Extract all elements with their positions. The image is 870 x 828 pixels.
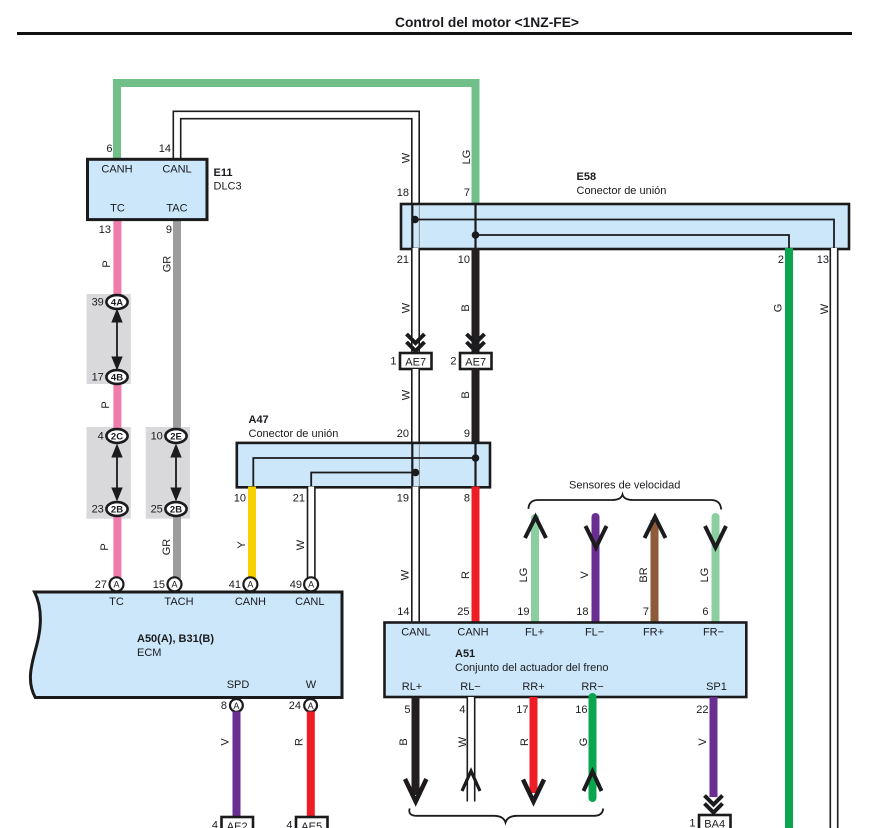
svg-text:4: 4 [286, 820, 292, 828]
wire W white E11 pin14 to E58 pin18 [177, 115, 416, 205]
svg-text:W: W [400, 569, 412, 580]
E58 internal wire to pin2 [476, 235, 789, 248]
svg-text:G: G [578, 738, 590, 747]
svg-text:TACH: TACH [164, 596, 193, 608]
svg-text:P: P [101, 260, 113, 267]
svg-text:8: 8 [464, 493, 470, 505]
svg-text:10: 10 [151, 431, 165, 443]
connector A51 box [385, 623, 747, 698]
svg-text:AE2: AE2 [227, 821, 248, 828]
wire R A51 RR+ [530, 697, 538, 793]
svg-text:SP1: SP1 [706, 681, 727, 693]
svg-text:B: B [398, 738, 410, 745]
wire GR gray E11 pin9 seg1 [173, 220, 181, 430]
svg-text:BR: BR [638, 567, 650, 582]
svg-text:Conector de unión: Conector de unión [577, 185, 667, 197]
svg-text:RL+: RL+ [402, 681, 423, 693]
svg-text:V: V [697, 738, 709, 746]
svg-text:2: 2 [450, 356, 456, 368]
svg-text:CANH: CANH [235, 596, 266, 608]
E58 internal wire pin18-21 [411, 205, 413, 248]
svg-text:25: 25 [151, 504, 165, 516]
connector AE7 no1 [400, 353, 432, 369]
wire B E58 pin10 down [472, 248, 480, 354]
svg-text:V: V [220, 738, 232, 746]
svg-text:RL−: RL− [460, 681, 481, 693]
arrow up FL+ [525, 517, 546, 538]
svg-text:1: 1 [689, 818, 695, 828]
svg-text:A: A [247, 580, 253, 590]
svg-text:BA4: BA4 [704, 819, 725, 828]
svg-text:14: 14 [159, 143, 171, 155]
arrow down RR+ [523, 780, 544, 802]
svg-text:E11: E11 [214, 167, 233, 179]
wire Y A47 pin10 to ECM CANH [248, 487, 256, 579]
svg-text:SPD: SPD [227, 679, 250, 691]
A47 junction node [472, 454, 480, 462]
A47 internal wire to pin21 [311, 473, 415, 487]
svg-text:R: R [519, 738, 531, 746]
svg-text:B: B [460, 391, 472, 398]
A47 junction node [412, 469, 420, 477]
svg-text:19: 19 [517, 606, 529, 618]
svg-text:A: A [171, 580, 177, 590]
ECM box A50(A) B31(B) [30, 592, 342, 698]
svg-text:8: 8 [221, 700, 227, 712]
svg-text:RR+: RR+ [522, 681, 544, 693]
arrow down FR- [705, 526, 726, 548]
arrow up RR- [584, 772, 602, 792]
wire LG green E11 pin6 to E58 pin7 [117, 83, 476, 205]
svg-text:16: 16 [575, 704, 587, 716]
svg-text:AE5: AE5 [301, 821, 322, 828]
svg-text:GR: GR [162, 256, 174, 273]
svg-text:1: 1 [390, 356, 396, 368]
svg-text:W: W [401, 302, 413, 313]
svg-text:23: 23 [92, 504, 106, 516]
chevrons into BA4 [705, 796, 723, 813]
connector AE5 [296, 817, 328, 828]
svg-text:Sensores de velocidad: Sensores de velocidad [569, 480, 680, 492]
svg-text:AE7: AE7 [465, 357, 486, 369]
svg-text:W: W [401, 152, 413, 163]
svg-text:A: A [308, 580, 314, 590]
svg-text:A: A [233, 701, 239, 711]
arrow up FR+ [645, 517, 666, 538]
svg-text:4: 4 [212, 820, 218, 828]
svg-text:R: R [294, 738, 306, 746]
svg-text:6: 6 [106, 143, 112, 155]
brace over speed sensors [528, 495, 721, 510]
wire R ECM W to AE5 [307, 712, 315, 818]
wire G E58 pin2 down right side [785, 248, 793, 828]
chevrons into AE7 no1 [407, 334, 425, 351]
wire P pink seg3 to ECM pin27 [113, 515, 121, 579]
svg-text:P: P [100, 401, 112, 408]
wire V ECM SPD to AE2 [233, 712, 241, 818]
svg-text:Y: Y [236, 541, 248, 549]
title rule [17, 32, 852, 35]
wire P pink seg2 between shield boxes [113, 384, 121, 430]
svg-text:LG: LG [461, 150, 473, 165]
svg-text:18: 18 [576, 606, 588, 618]
connector AE2 [222, 817, 254, 828]
oval connector 2C [106, 429, 127, 443]
connector AE7 no2 [460, 353, 492, 369]
svg-text:W: W [401, 389, 413, 400]
svg-text:Conjunto del actuador del fren: Conjunto del actuador del freno [455, 662, 609, 674]
svg-text:CANH: CANH [457, 627, 488, 639]
gray shield box 2C/2B [87, 427, 131, 519]
wire W A51 RL- [467, 697, 476, 802]
svg-text:RR−: RR− [581, 681, 603, 693]
ECM pin 15 circle A [168, 577, 182, 591]
svg-text:CANL: CANL [162, 164, 191, 176]
svg-text:A51: A51 [455, 648, 475, 660]
svg-text:2E: 2E [170, 432, 182, 443]
brace under RL RR wires [409, 809, 603, 823]
svg-text:TC: TC [110, 203, 125, 215]
svg-text:B: B [460, 304, 472, 311]
svg-text:2B: 2B [170, 505, 182, 516]
svg-text:Control del motor <1NZ-FE>: Control del motor <1NZ-FE> [395, 15, 579, 30]
svg-text:FR+: FR+ [643, 627, 664, 639]
svg-text:FL+: FL+ [525, 627, 544, 639]
svg-text:Conector de unión: Conector de unión [249, 428, 339, 440]
svg-text:18: 18 [397, 187, 409, 199]
svg-text:9: 9 [166, 224, 172, 236]
A47 internal wire to pin10 [253, 458, 475, 487]
svg-text:39: 39 [92, 297, 106, 309]
svg-text:24: 24 [289, 700, 301, 712]
svg-text:TAC: TAC [166, 203, 187, 215]
ECM pin 27 circle A [110, 577, 124, 591]
svg-text:7: 7 [464, 187, 470, 199]
svg-text:W: W [457, 736, 469, 747]
svg-text:20: 20 [397, 428, 409, 440]
gray shield box 2E/2B [146, 427, 190, 519]
oval connector 4B [106, 370, 127, 384]
svg-text:19: 19 [397, 493, 409, 505]
svg-text:10: 10 [458, 254, 470, 266]
wire B AE7 to A47 pin9 [472, 369, 480, 444]
svg-text:6: 6 [702, 606, 708, 618]
oval connector 2B right [165, 502, 186, 516]
wire G A51 RR- [589, 697, 597, 798]
wire R A47 pin8 to A51 pin25 [472, 487, 480, 624]
svg-text:15: 15 [153, 579, 165, 591]
svg-text:ECM: ECM [137, 647, 161, 659]
svg-text:A: A [113, 580, 119, 590]
svg-text:A47: A47 [249, 414, 269, 426]
svg-text:25: 25 [457, 606, 469, 618]
A47 internal wire pin9-8 [474, 444, 476, 487]
wire LG sensor FR- [712, 517, 720, 623]
svg-text:2B: 2B [111, 505, 123, 516]
svg-text:FL−: FL− [585, 627, 604, 639]
ECM pin 24 circle A [304, 699, 317, 712]
svg-text:4A: 4A [111, 298, 123, 309]
wire LG sensor FL+ [531, 518, 539, 623]
svg-text:4: 4 [98, 431, 106, 443]
svg-text:W: W [306, 679, 317, 691]
connector E58 box [401, 204, 849, 249]
svg-text:17: 17 [92, 372, 106, 384]
ECM pin 8 circle A [230, 699, 243, 712]
svg-text:CANL: CANL [295, 596, 324, 608]
connector A47 box [237, 443, 490, 487]
svg-text:2: 2 [778, 254, 784, 266]
shield arrow box2 [116, 447, 118, 498]
svg-text:14: 14 [397, 606, 409, 618]
svg-text:10: 10 [234, 493, 246, 505]
svg-text:P: P [99, 543, 111, 550]
chevrons into AE7 no2 [467, 334, 485, 351]
svg-text:49: 49 [290, 579, 302, 591]
svg-text:4: 4 [459, 704, 465, 716]
svg-text:LG: LG [518, 568, 530, 583]
svg-text:GR: GR [161, 539, 173, 556]
ECM pin 49 circle A [304, 577, 318, 591]
svg-text:17: 17 [516, 704, 528, 716]
oval connector 4A [106, 295, 127, 309]
svg-text:4B: 4B [111, 373, 123, 384]
E58 internal wire to pin13 [414, 220, 834, 249]
svg-text:R: R [460, 571, 472, 579]
connector BA4 [699, 815, 731, 828]
E58 internal wire pin7-10 [474, 205, 476, 248]
svg-text:13: 13 [99, 224, 111, 236]
ECM pin 41 circle A [243, 577, 257, 591]
svg-text:FR−: FR− [703, 627, 724, 639]
wire W AE7 to A47 pin20 [411, 369, 420, 444]
arrow up RL- [462, 771, 480, 791]
wire W A47 pin21 to ECM CANL [307, 487, 316, 579]
arrow down FL- [586, 526, 607, 548]
wire P pink E11 pin13 seg1 [113, 220, 121, 296]
svg-text:TC: TC [109, 596, 124, 608]
A47 internal wire pin20-19 [411, 444, 413, 487]
svg-text:A: A [308, 701, 314, 711]
connector E11 DLC3 box [88, 159, 208, 219]
wire GR gray seg2 to ECM pin15 [173, 515, 181, 579]
svg-text:13: 13 [817, 254, 829, 266]
svg-text:41: 41 [229, 579, 241, 591]
svg-text:21: 21 [397, 254, 409, 266]
svg-text:G: G [773, 304, 785, 313]
svg-text:W: W [295, 539, 307, 550]
svg-text:7: 7 [643, 606, 649, 618]
shield arrow box3 [175, 447, 177, 498]
svg-text:LG: LG [699, 568, 711, 583]
svg-text:W: W [819, 303, 831, 314]
E58 junction node [472, 231, 480, 239]
svg-text:DLC3: DLC3 [214, 181, 242, 193]
wire V sensor FL- [592, 517, 600, 623]
svg-text:A50(A), B31(B): A50(A), B31(B) [137, 633, 214, 645]
oval connector 2E [165, 429, 186, 443]
svg-text:V: V [579, 571, 591, 579]
wire W A47 pin19 to A51 pin14 [411, 487, 420, 624]
wire V A51 SP1 [710, 697, 718, 797]
svg-text:CANL: CANL [401, 627, 430, 639]
E58 junction node [411, 216, 419, 224]
arrow down RL+ [405, 779, 426, 802]
svg-text:21: 21 [293, 493, 305, 505]
wire W E58 pin21 down [411, 248, 420, 354]
gray shield box 4A/4B [87, 294, 131, 384]
svg-text:5: 5 [404, 704, 410, 716]
wire BR sensor FR+ [651, 520, 659, 623]
svg-text:E58: E58 [577, 171, 597, 183]
svg-text:9: 9 [464, 428, 470, 440]
wire B A51 RL+ [412, 697, 420, 795]
svg-text:27: 27 [95, 579, 107, 591]
shield arrow box1 [116, 313, 118, 366]
svg-text:22: 22 [696, 704, 708, 716]
svg-text:CANH: CANH [101, 164, 132, 176]
oval connector 2B left [106, 502, 127, 516]
svg-text:2C: 2C [111, 432, 123, 443]
wire W E58 pin13 down right side [830, 248, 839, 828]
svg-text:AE7: AE7 [405, 357, 426, 369]
